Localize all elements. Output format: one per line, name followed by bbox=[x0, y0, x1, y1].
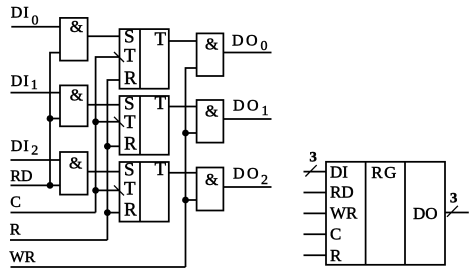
wire C branch to FF3 T bbox=[96, 189, 120, 191]
wire G3 out to FF3 S bbox=[88, 171, 120, 173]
wire RG WR stub bbox=[304, 212, 327, 214]
svg-text:DI: DI bbox=[11, 138, 30, 155]
svg-text:1: 1 bbox=[31, 78, 38, 93]
and-gate G4 box bbox=[197, 33, 224, 76]
svg-text:2: 2 bbox=[31, 144, 38, 159]
wire RG DI stub bbox=[304, 171, 327, 173]
wire DO0 output line bbox=[223, 52, 271, 54]
wire RG R stub bbox=[304, 254, 327, 256]
dynamic input slash FF2 T bbox=[114, 117, 124, 127]
wire DI0 input line bbox=[11, 26, 60, 28]
svg-text:&: & bbox=[205, 34, 218, 53]
register RG box bbox=[326, 162, 445, 265]
svg-text:T: T bbox=[124, 46, 136, 67]
wire DI1 input line bbox=[11, 92, 61, 94]
svg-text:&: & bbox=[205, 102, 218, 121]
dynamic input slash FF3 T bbox=[114, 185, 124, 195]
wire C riser to T inputs bbox=[96, 57, 120, 213]
svg-text:R: R bbox=[124, 133, 137, 154]
svg-text:DO: DO bbox=[233, 166, 261, 183]
svg-text:2: 2 bbox=[261, 173, 268, 188]
flip-flop FF3 box bbox=[120, 162, 169, 222]
junction dot RD riser on RD line bbox=[47, 182, 54, 189]
flip-flop FF1 divider bbox=[139, 29, 141, 89]
svg-text:T: T bbox=[124, 112, 136, 133]
svg-text:DO: DO bbox=[232, 32, 260, 49]
junction dot C riser at FF2 T bbox=[92, 118, 99, 125]
svg-text:3: 3 bbox=[450, 190, 458, 206]
wire RD input line bbox=[11, 184, 61, 186]
svg-text:T: T bbox=[155, 93, 167, 114]
wire RD branch to G2 bbox=[50, 118, 60, 120]
and-gate G6 box bbox=[197, 168, 224, 211]
svg-text:S: S bbox=[124, 27, 135, 48]
svg-text:&: & bbox=[69, 154, 82, 173]
svg-text:0: 0 bbox=[261, 39, 268, 54]
svg-text:RD: RD bbox=[330, 182, 354, 201]
svg-text:S: S bbox=[124, 160, 135, 181]
junction dot R riser at FF3 R bbox=[104, 209, 111, 216]
junction dot WR riser at G5 bbox=[182, 130, 189, 137]
register RG divider1 bbox=[365, 162, 367, 265]
svg-text:DO: DO bbox=[233, 98, 261, 115]
junction dot WR riser at G6 bbox=[182, 197, 189, 204]
wire RG C stub bbox=[304, 233, 327, 235]
wire G1 out to FF1 S bbox=[88, 35, 120, 37]
wire WR riser to output gates bbox=[186, 68, 197, 267]
wire DO2 output line bbox=[223, 186, 271, 188]
junction dot C riser at FF3 T bbox=[92, 187, 99, 194]
wire RG DO stub bbox=[445, 212, 469, 214]
and-gate G3 box bbox=[60, 152, 88, 195]
svg-text:R: R bbox=[124, 68, 137, 89]
wire WR input line bbox=[11, 266, 186, 268]
wire FF3 T out to G6 bbox=[169, 172, 197, 174]
svg-text:DI: DI bbox=[330, 163, 348, 182]
dynamic input slash FF1 T bbox=[114, 52, 124, 62]
wire FF2 T out to G5 bbox=[169, 106, 197, 108]
wire WR branch to G5 bbox=[186, 132, 197, 134]
svg-text:T: T bbox=[155, 29, 167, 50]
svg-text:DO: DO bbox=[413, 204, 438, 223]
wire C branch to FF2 T bbox=[96, 121, 120, 123]
svg-text:R: R bbox=[10, 222, 21, 239]
svg-text:R: R bbox=[330, 246, 342, 265]
bus slash RG DO stub bbox=[447, 206, 458, 217]
register RG divider2 bbox=[404, 162, 406, 265]
svg-text:T: T bbox=[155, 159, 167, 180]
wire DO1 output line bbox=[223, 118, 271, 120]
and-gate G1 box bbox=[60, 18, 88, 61]
wire R input line bbox=[10, 239, 107, 241]
bus slash RG DI stub bbox=[305, 165, 316, 176]
svg-text:0: 0 bbox=[32, 13, 39, 28]
svg-text:C: C bbox=[10, 194, 21, 211]
and-gate G5 box bbox=[197, 100, 224, 143]
svg-text:R: R bbox=[124, 200, 137, 221]
wire C input line bbox=[11, 212, 96, 214]
svg-text:T: T bbox=[124, 179, 136, 200]
wire G2 out to FF2 S bbox=[88, 104, 120, 106]
svg-text:3: 3 bbox=[309, 150, 317, 166]
svg-text:DI: DI bbox=[11, 5, 30, 22]
junction dot RD riser at G2 branch bbox=[47, 115, 54, 122]
svg-text:&: & bbox=[70, 86, 83, 105]
flip-flop FF2 box bbox=[120, 96, 169, 155]
wire WR branch to G6 bbox=[186, 199, 197, 201]
svg-text:RD: RD bbox=[10, 168, 32, 185]
wire R branch to FF2 R bbox=[107, 145, 119, 147]
svg-text:WR: WR bbox=[330, 204, 358, 223]
wire DI2 input line bbox=[11, 159, 61, 161]
svg-text:&: & bbox=[205, 170, 218, 189]
flip-flop FF2 divider bbox=[139, 96, 141, 155]
svg-text:RG: RG bbox=[371, 163, 398, 182]
and-gate G2 box bbox=[60, 85, 88, 126]
svg-text:WR: WR bbox=[10, 249, 36, 266]
flip-flop FF1 box bbox=[120, 29, 169, 89]
wire FF1 T out to G4 bbox=[169, 40, 197, 42]
junction dot R riser at FF2 R bbox=[104, 143, 111, 150]
svg-text:DI: DI bbox=[11, 73, 30, 90]
wire RD riser to G1/G2 bbox=[50, 53, 60, 186]
wire R riser to R inputs bbox=[107, 80, 119, 240]
svg-text:C: C bbox=[330, 224, 341, 243]
wire RG RD stub bbox=[304, 192, 327, 194]
svg-text:1: 1 bbox=[262, 104, 269, 119]
svg-text:&: & bbox=[70, 17, 83, 36]
flip-flop FF3 divider bbox=[139, 162, 141, 222]
wire R branch to FF3 R bbox=[107, 212, 119, 214]
